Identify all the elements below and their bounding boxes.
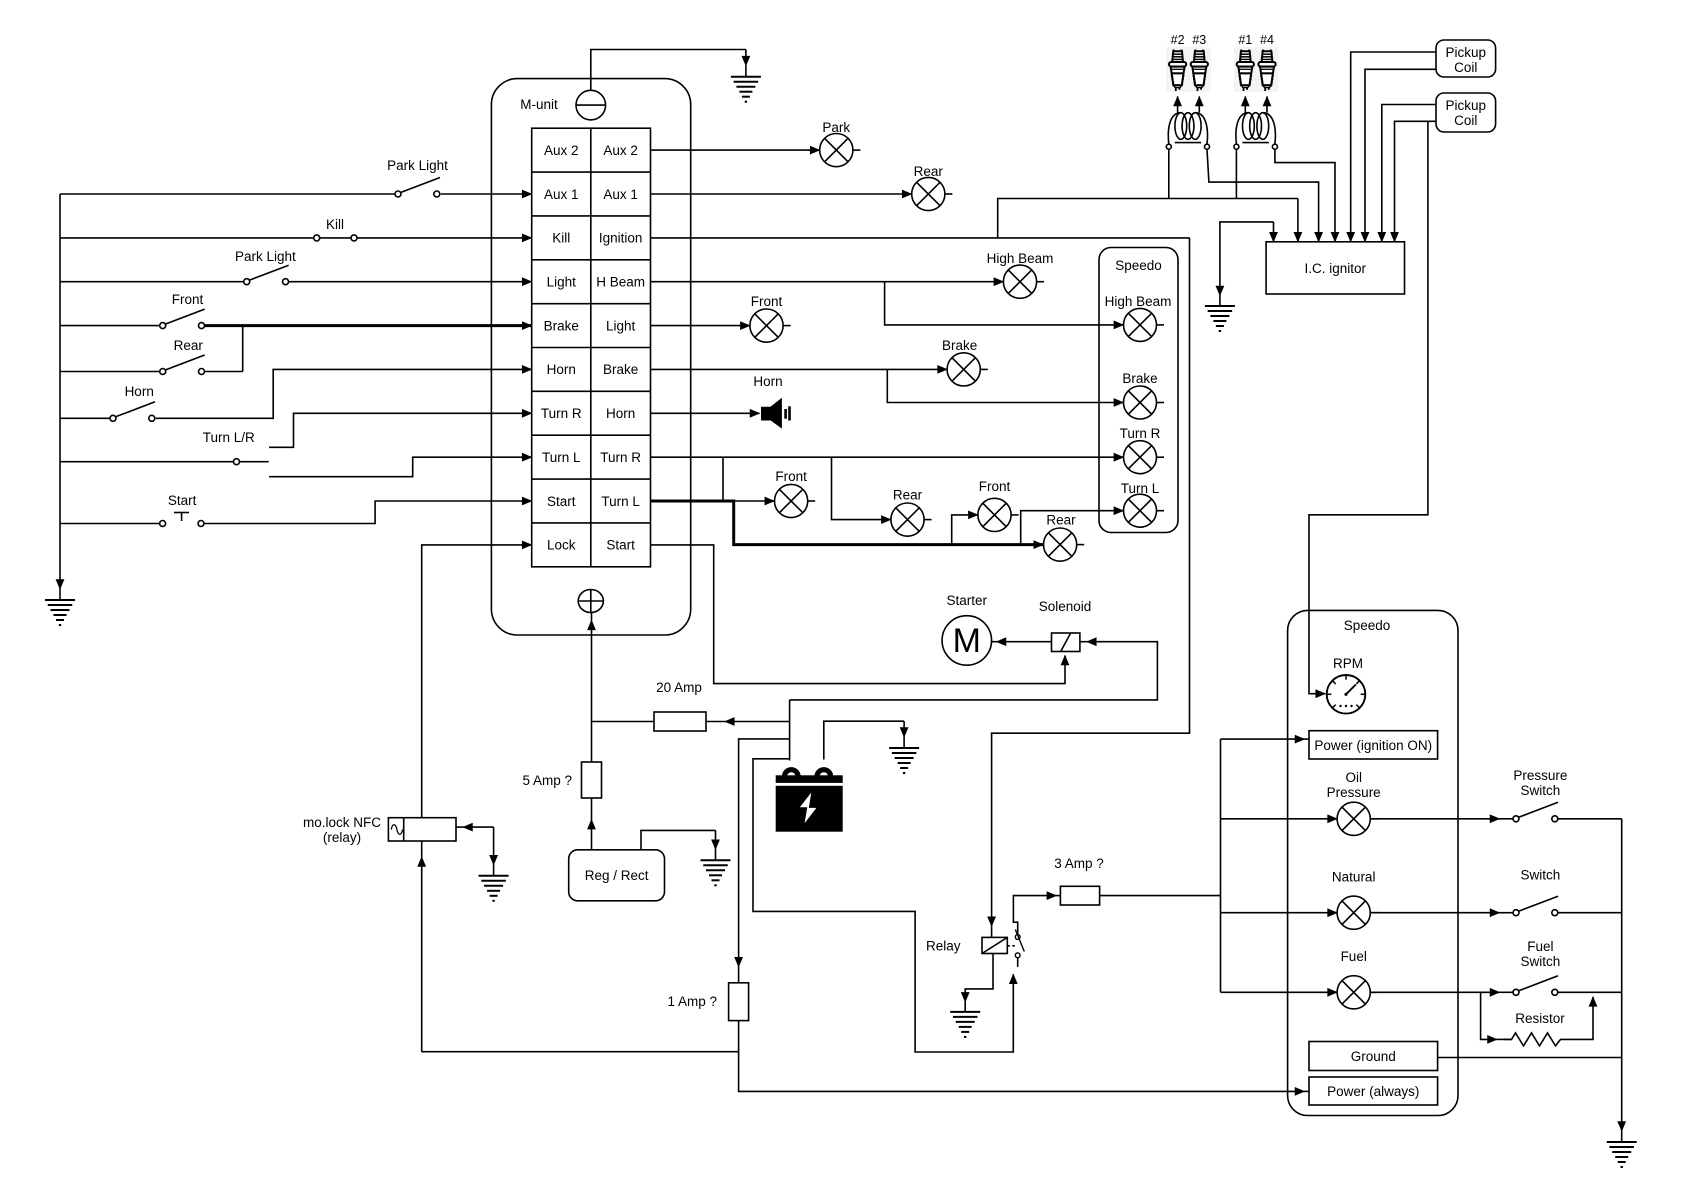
wire Aux 1 out to Rear lamp bbox=[651, 193, 912, 195]
svg-text:Oil: Oil bbox=[1345, 770, 1362, 785]
svg-text:Power (always): Power (always) bbox=[1327, 1084, 1419, 1099]
svg-text:Fuel: Fuel bbox=[1527, 939, 1553, 954]
svg-text:Ignition: Ignition bbox=[599, 231, 643, 246]
solenoid bbox=[1052, 633, 1080, 652]
starter motor M bbox=[942, 616, 992, 666]
wire mo.lock to Lock input bbox=[422, 545, 532, 818]
svg-text:Turn R: Turn R bbox=[541, 406, 582, 421]
wire H Beam branch to speedo High Beam bbox=[885, 282, 1124, 325]
fuse F1 20 Amp bbox=[654, 712, 706, 731]
svg-text:High Beam: High Beam bbox=[1105, 294, 1172, 309]
svg-text:Light: Light bbox=[547, 275, 577, 290]
svg-text:Pressure: Pressure bbox=[1513, 768, 1567, 783]
svg-text:Front: Front bbox=[979, 479, 1011, 494]
svg-text:Kill: Kill bbox=[552, 231, 570, 246]
spark plug #1 bbox=[1234, 47, 1257, 92]
wire H Beam out to High Beam lamp bbox=[651, 281, 1004, 283]
wire Fuel lamp to fuel switch bbox=[1370, 991, 1499, 993]
M-unit minus terminal bbox=[576, 90, 606, 120]
wire battery to solenoid bbox=[790, 642, 1158, 700]
wire Ignition out bbox=[651, 237, 1190, 239]
svg-text:Pressure: Pressure bbox=[1327, 785, 1381, 800]
relay contact linkage (dashed) bbox=[1007, 945, 1015, 947]
Ground box bbox=[1309, 1042, 1438, 1071]
switch Start pushbutton bbox=[160, 513, 204, 527]
wire Brake branch to speedo Brake bbox=[887, 369, 1123, 402]
svg-text:H Beam: H Beam bbox=[596, 275, 645, 290]
svg-text:#3: #3 bbox=[1192, 33, 1206, 47]
ignition coil (cyl 1/4) bbox=[1234, 113, 1278, 150]
wire coil1 left terminal to ignition feed bbox=[1168, 149, 1170, 198]
wire bus to Park Light switch bbox=[60, 193, 395, 195]
wire tach signal to RPM gauge bbox=[1309, 121, 1428, 693]
switch Kill (closed) bbox=[314, 235, 357, 241]
resistor (fuel) bbox=[1504, 1033, 1566, 1046]
Power (ignition ON) box bbox=[1309, 731, 1438, 759]
svg-text:Turn L: Turn L bbox=[542, 450, 581, 465]
ground G2 (M-unit minus) bbox=[745, 50, 747, 66]
wire rail to Natural lamp bbox=[1221, 912, 1338, 914]
svg-text:Rear: Rear bbox=[914, 164, 944, 179]
svg-text:Start: Start bbox=[168, 493, 197, 508]
switch Turn L/R common bbox=[234, 459, 240, 465]
svg-text:Horn: Horn bbox=[606, 406, 635, 421]
spark plug #4 bbox=[1256, 47, 1279, 92]
wire Front brake switch to Brake input (thick) bbox=[205, 324, 532, 327]
wire Ground box to ground rail bbox=[1438, 1057, 1622, 1059]
svg-text:Turn L: Turn L bbox=[1121, 481, 1160, 496]
svg-text:(relay): (relay) bbox=[323, 830, 361, 845]
wire Park Light switch to Aux 1 input bbox=[441, 193, 532, 195]
wire right ground rail bbox=[1621, 819, 1623, 1126]
wire Start out to solenoid bbox=[651, 545, 1066, 684]
wire Turn L contact to Turn L input bbox=[269, 457, 532, 477]
wire battery positive to relay contact bbox=[753, 759, 1013, 1052]
M-unit terminal table bbox=[532, 128, 651, 567]
svg-text:1 Amp ?: 1 Amp ? bbox=[667, 994, 717, 1009]
wire bus to Kill switch bbox=[60, 237, 314, 239]
svg-text:Reg / Rect: Reg / Rect bbox=[585, 868, 649, 883]
svg-text:I.C. ignitor: I.C. ignitor bbox=[1305, 261, 1367, 276]
svg-text:Horn: Horn bbox=[547, 362, 576, 377]
ground G4 (mo.lock) bbox=[479, 876, 509, 901]
wire Light out to Front lamp bbox=[651, 325, 750, 327]
svg-text:Rear: Rear bbox=[174, 338, 204, 353]
ground G6 (relay) bbox=[950, 1012, 980, 1037]
wire switched power rail bbox=[1220, 739, 1222, 992]
wire pickup coil 2 line A to ignitor pin 7 bbox=[1382, 105, 1436, 242]
wire Brake out to Brake lamp bbox=[651, 368, 948, 370]
fuse F3 3 Amp bbox=[1060, 886, 1099, 905]
svg-text:Relay: Relay bbox=[926, 939, 961, 954]
fuel switch bbox=[1513, 976, 1558, 996]
wire relay contact bottom stub bbox=[1017, 958, 1019, 967]
svg-text:Pickup: Pickup bbox=[1446, 45, 1487, 60]
wire Oil lamp to pressure switch bbox=[1370, 818, 1499, 820]
wire Turn R branch to rear indicator bbox=[832, 457, 891, 519]
wire M-unit minus terminal to ground bbox=[591, 50, 746, 91]
svg-text:Park Light: Park Light bbox=[387, 158, 448, 173]
wire rail to Fuel lamp bbox=[1221, 991, 1338, 993]
wire mo.lock coil to ground bbox=[463, 826, 494, 828]
M-unit control box bbox=[491, 79, 690, 635]
wire relay coil top stub bbox=[991, 926, 993, 937]
svg-text:Fuel: Fuel bbox=[1341, 949, 1367, 964]
svg-text:Aux 1: Aux 1 bbox=[603, 187, 638, 202]
svg-text:Aux 2: Aux 2 bbox=[544, 143, 579, 158]
svg-text:Starter: Starter bbox=[947, 593, 988, 608]
svg-text:Park Light: Park Light bbox=[235, 249, 296, 264]
relay coil box bbox=[982, 937, 1007, 953]
speedo lamp Fuel bbox=[1337, 976, 1378, 1009]
wire bus to Turn L/R switch bbox=[60, 461, 234, 463]
wire battery negative to ground bbox=[824, 721, 904, 759]
svg-text:Natural: Natural bbox=[1332, 870, 1376, 885]
svg-text:Brake: Brake bbox=[603, 362, 638, 377]
pickup coil box 1 bbox=[1436, 40, 1496, 77]
wire resistor to fuel switch output bbox=[1566, 997, 1593, 1040]
speedo lamp Turn L bbox=[1124, 494, 1165, 527]
svg-text:Pickup: Pickup bbox=[1446, 98, 1487, 113]
spark plug #2 bbox=[1166, 47, 1189, 92]
wire bus to Front brake switch bbox=[60, 325, 160, 327]
svg-text:3 Amp ?: 3 Amp ? bbox=[1054, 856, 1104, 871]
svg-text:20 Amp: 20 Amp bbox=[656, 680, 702, 695]
lamp Brake bbox=[947, 353, 988, 386]
switch Horn bbox=[110, 402, 155, 422]
ignition coil (cyl 2/3) bbox=[1166, 113, 1209, 150]
wire Start switch to Start input bbox=[204, 501, 532, 524]
svg-text:Turn L/R: Turn L/R bbox=[203, 430, 255, 445]
svg-text:Brake: Brake bbox=[544, 318, 579, 333]
svg-text:Brake: Brake bbox=[1122, 371, 1157, 386]
svg-text:Solenoid: Solenoid bbox=[1039, 599, 1092, 614]
wire Horn out to horn speaker bbox=[651, 412, 760, 414]
wire ignitor ground run bbox=[1220, 222, 1274, 296]
wire always-on rail to 1A junction bbox=[422, 1051, 739, 1053]
spark plug #3 bbox=[1188, 47, 1211, 92]
svg-text:Rear: Rear bbox=[893, 488, 923, 503]
svg-text:#2: #2 bbox=[1171, 33, 1185, 47]
I.C. ignitor box bbox=[1266, 242, 1404, 294]
speedo lamp Natural bbox=[1337, 896, 1378, 929]
wire 20A fuse to M-unit plus bbox=[592, 721, 655, 723]
wire junction rear-to-front brake bbox=[242, 326, 244, 372]
speedo lamp Turn R bbox=[1124, 441, 1165, 474]
svg-text:Aux 1: Aux 1 bbox=[544, 187, 579, 202]
svg-text:Light: Light bbox=[606, 318, 636, 333]
wire bus to Start switch bbox=[60, 523, 160, 525]
wire battery positive riser bbox=[789, 700, 791, 761]
wire Turn R branch to front indicator bbox=[723, 457, 774, 501]
relay switch contacts bbox=[1015, 930, 1024, 958]
lamp Front turn right bbox=[775, 484, 816, 517]
svg-text:Kill: Kill bbox=[326, 217, 344, 232]
fuse F4 1 Amp bbox=[729, 983, 749, 1021]
wire bus to Rear brake switch bbox=[60, 371, 160, 373]
svg-text:Turn R: Turn R bbox=[1120, 426, 1161, 441]
RPM gauge bbox=[1327, 675, 1366, 714]
svg-text:Front: Front bbox=[775, 469, 807, 484]
wire coil to spark plug #4 bbox=[1266, 97, 1268, 113]
lamp High Beam bbox=[1003, 265, 1044, 298]
svg-text:5 Amp ?: 5 Amp ? bbox=[522, 773, 572, 788]
wire relay contact top to 3A fuse bbox=[1013, 896, 1056, 935]
svg-text:Speedo: Speedo bbox=[1344, 618, 1391, 633]
ground G5 (Reg/Rect) bbox=[715, 830, 717, 849]
svg-text:Coil: Coil bbox=[1454, 113, 1477, 128]
wire Aux 2 out to Park lamp bbox=[651, 149, 820, 151]
speedo lamp Brake bbox=[1124, 386, 1165, 419]
wire pickup coil 1 line B to ignitor pin 6 bbox=[1365, 69, 1436, 242]
wire ignition riser to coil feed line bbox=[998, 199, 1298, 238]
svg-text:Horn: Horn bbox=[753, 374, 782, 389]
wire Turn R contact to Turn R input bbox=[269, 413, 532, 447]
Reg / Rect box bbox=[569, 850, 665, 901]
svg-text:Park: Park bbox=[822, 120, 850, 135]
svg-text:Switch: Switch bbox=[1521, 868, 1561, 883]
wire coil feed pin into I.C. ignitor bbox=[1297, 199, 1299, 242]
speedo gauge box bbox=[1288, 610, 1458, 1115]
wire pressure switch to ground rail bbox=[1558, 818, 1622, 820]
wire pickup coil 2 line B to ignitor pin 8 bbox=[1395, 121, 1437, 242]
battery bbox=[776, 770, 843, 832]
wire coil to spark plug #1 bbox=[1244, 97, 1246, 113]
switch Park Light (Aux 1) bbox=[395, 178, 440, 198]
wire bus to Horn switch bbox=[60, 417, 110, 419]
wire solenoid to starter bbox=[997, 641, 1052, 643]
wire fuel switch to ground rail bbox=[1558, 991, 1622, 993]
svg-text:#1: #1 bbox=[1238, 33, 1252, 47]
wire battery positive to 1A fuse bbox=[739, 739, 790, 967]
M-unit plus terminal bbox=[578, 590, 603, 613]
Power (always) box bbox=[1309, 1077, 1438, 1105]
switch Front brake bbox=[160, 309, 205, 329]
svg-text:M: M bbox=[953, 622, 981, 660]
wire coil to spark plug #2 bbox=[1177, 97, 1179, 113]
svg-text:Aux 2: Aux 2 bbox=[603, 143, 638, 158]
speedo lamp High Beam bbox=[1124, 308, 1165, 341]
lamp Park bbox=[820, 134, 861, 167]
wire fuel resistor branch bbox=[1481, 992, 1497, 1039]
wire Ignition branch down to relay coil bbox=[992, 238, 1190, 926]
wire Horn switch to Horn input bbox=[156, 369, 532, 418]
svg-text:High Beam: High Beam bbox=[987, 251, 1054, 266]
switch Rear brake bbox=[160, 355, 205, 375]
svg-text:Resistor: Resistor bbox=[1515, 1011, 1565, 1026]
wire Rear brake switch join bbox=[205, 371, 243, 373]
wire neutral switch to ground rail bbox=[1558, 912, 1622, 914]
svg-text:Start: Start bbox=[606, 538, 635, 553]
wire M-unit plus feed bbox=[591, 620, 593, 721]
svg-text:Switch: Switch bbox=[1521, 783, 1561, 798]
wire coil1 right terminal to ignitor pin 3 bbox=[1207, 149, 1319, 242]
wire bus to Park Light 2 switch bbox=[60, 281, 244, 283]
svg-text:RPM: RPM bbox=[1333, 656, 1363, 671]
svg-text:M-unit: M-unit bbox=[520, 97, 558, 112]
svg-text:Horn: Horn bbox=[125, 384, 154, 399]
pressure switch bbox=[1513, 802, 1558, 822]
lamp Rear (tail) bbox=[912, 177, 953, 210]
wire pickup coil 1 line A to ignitor pin 5 bbox=[1351, 52, 1436, 242]
ground G3 (battery) bbox=[903, 721, 905, 737]
wire rail to Oil Pressure lamp bbox=[1221, 818, 1338, 820]
svg-text:Rear: Rear bbox=[1046, 513, 1076, 528]
svg-text:Switch: Switch bbox=[1521, 954, 1561, 969]
wire left common bus bbox=[59, 194, 61, 589]
wire junction to 5A fuse bbox=[591, 722, 593, 763]
wire Reg/Rect to 5A fuse bbox=[591, 820, 593, 850]
wire 1A fuse to always-on rail bbox=[739, 1021, 1305, 1092]
svg-text:Front: Front bbox=[751, 294, 783, 309]
mo.lock NFC relay box bbox=[388, 818, 456, 841]
wire Turn R out to speedo Turn R bbox=[651, 456, 1124, 458]
lamp Front turn left bbox=[978, 498, 1019, 531]
wire rail to Power (ignition ON) bbox=[1221, 738, 1305, 740]
wire Reg/Rect to ground bbox=[641, 830, 716, 849]
wire coil2 right terminal to ignitor pin 4 bbox=[1275, 149, 1335, 242]
lamp Rear turn left bbox=[1044, 528, 1085, 561]
wire Natural lamp to switch bbox=[1370, 912, 1499, 914]
wire coil2 left terminal to ignition feed bbox=[1235, 149, 1237, 198]
svg-text:#4: #4 bbox=[1260, 33, 1274, 47]
fuse F2 5 Amp bbox=[582, 762, 602, 798]
svg-text:Ground: Ground bbox=[1351, 1049, 1396, 1064]
wire ignitor ground pin bbox=[1273, 222, 1275, 242]
pickup coil box 2 bbox=[1436, 93, 1496, 132]
wire Turn L out (thick) bbox=[651, 501, 1044, 545]
svg-text:Coil: Coil bbox=[1454, 60, 1477, 75]
wire Kill switch to Kill input bbox=[357, 237, 532, 239]
svg-text:Lock: Lock bbox=[547, 538, 576, 553]
svg-text:Start: Start bbox=[547, 494, 576, 509]
wire mo.lock to always-on rail bbox=[421, 857, 423, 1052]
wire 3A fuse to switched power rail bbox=[1100, 895, 1221, 897]
svg-text:Power (ignition ON): Power (ignition ON) bbox=[1314, 738, 1432, 753]
svg-text:Speedo: Speedo bbox=[1115, 258, 1162, 273]
wire Turn L branch to speedo Turn L bbox=[1021, 511, 1124, 545]
wire Turn L branch to front indicator bbox=[952, 515, 978, 545]
wire coil to spark plug #3 bbox=[1198, 97, 1200, 113]
svg-text:Brake: Brake bbox=[942, 338, 977, 353]
horn speaker bbox=[762, 399, 790, 428]
lamp Rear turn right bbox=[891, 503, 932, 536]
svg-text:Turn L: Turn L bbox=[601, 494, 640, 509]
neutral switch bbox=[1513, 896, 1558, 916]
svg-text:Front: Front bbox=[172, 292, 204, 307]
svg-text:mo.lock NFC: mo.lock NFC bbox=[303, 815, 381, 830]
wire Park Light 2 switch to Light input bbox=[289, 281, 532, 283]
lamp Front (headlight) bbox=[750, 309, 791, 342]
speedo lamp Oil Pressure bbox=[1337, 802, 1378, 835]
switch Park Light (Light) bbox=[244, 265, 289, 285]
speedo indicator cluster box bbox=[1099, 248, 1178, 533]
wire Turn L/R common stub bbox=[240, 461, 269, 463]
ground G8 (I.C. ignitor) bbox=[1219, 296, 1221, 307]
wire relay coil to ground bbox=[965, 954, 993, 1002]
ground G1 (switch bus) bbox=[59, 588, 61, 591]
wire battery positive to 20A fuse bbox=[725, 721, 790, 723]
ground G7 (speedo grounds) bbox=[1621, 1126, 1623, 1131]
wire mo.lock ground drop bbox=[493, 827, 495, 865]
svg-text:Turn R: Turn R bbox=[600, 450, 641, 465]
